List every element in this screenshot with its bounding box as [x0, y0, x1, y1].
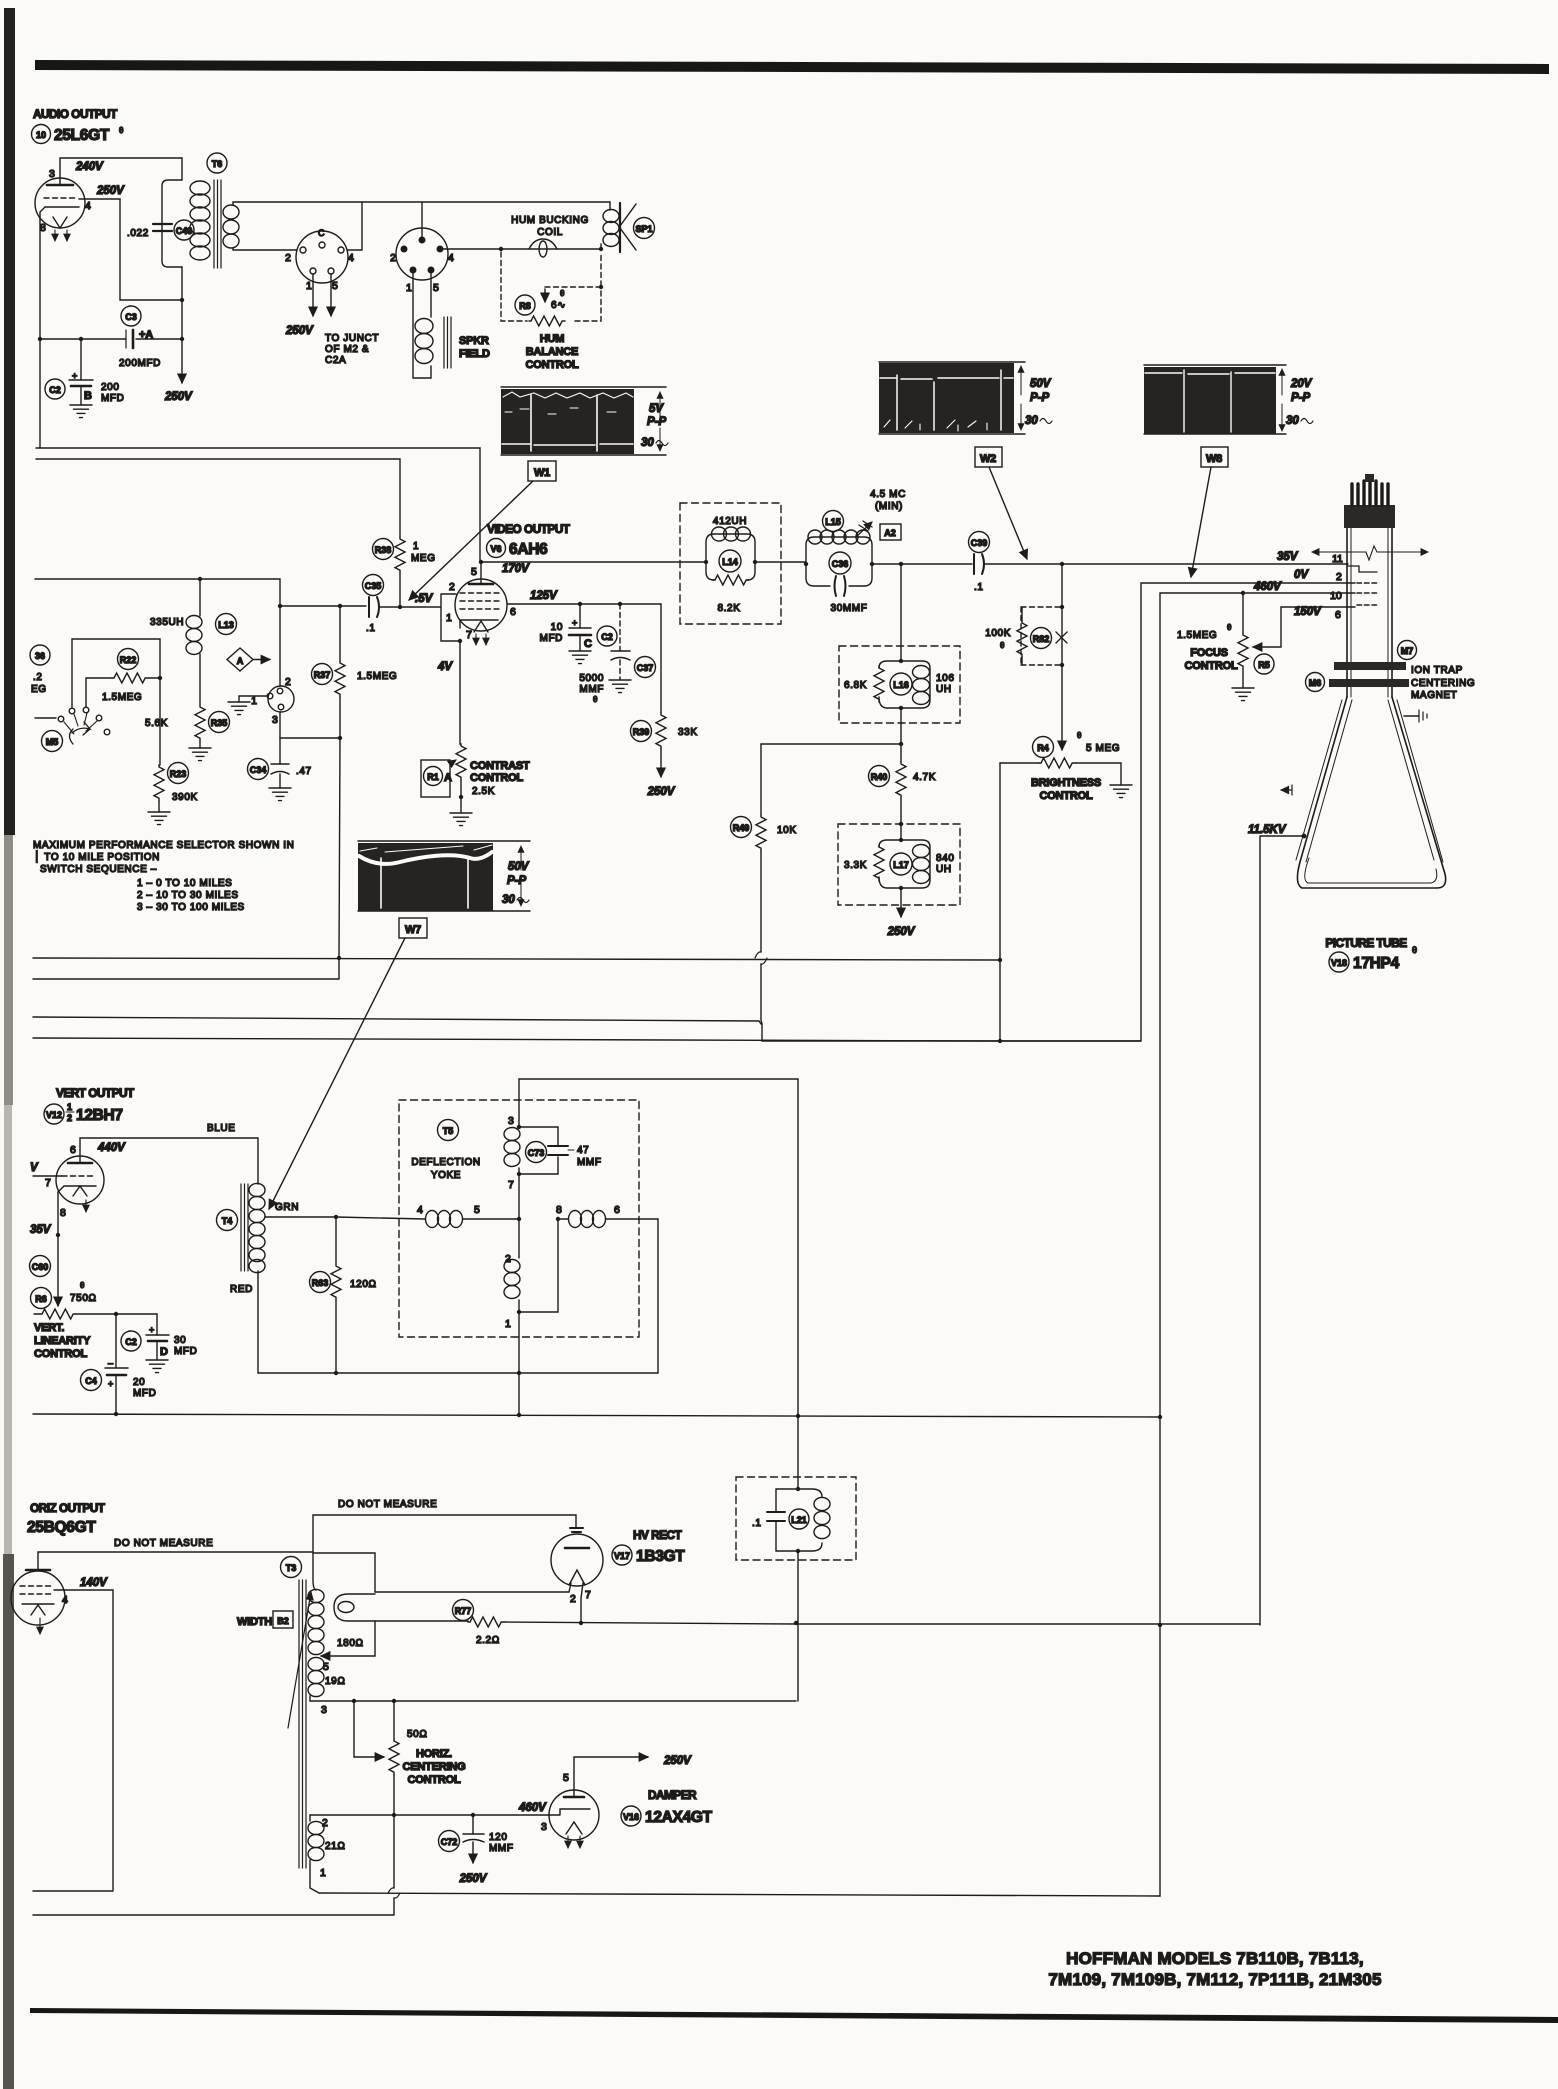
wire plate riser to HV top line — [313, 1515, 576, 1552]
svg-text:B2: B2 — [277, 1616, 289, 1626]
wire bus y1038 0V return — [33, 1038, 1141, 1041]
svg-text:C: C — [584, 638, 592, 650]
svg-text:30: 30 — [1286, 415, 1299, 427]
callout W7 — [269, 918, 427, 1209]
svg-text:+: + — [149, 1325, 154, 1335]
resistor R77 — [375, 1600, 1260, 1647]
electrode pin6 dashes — [1357, 604, 1378, 606]
svg-text:7: 7 — [585, 1589, 591, 1601]
capacitor C37 — [579, 602, 655, 704]
svg-text:C2: C2 — [125, 1337, 137, 1347]
svg-text:35V: 35V — [1277, 551, 1299, 563]
T3 winding tap wire to HV racetrack — [321, 1621, 375, 1656]
svg-text:2: 2 — [285, 252, 291, 264]
svg-text:MMF: MMF — [489, 1843, 514, 1854]
svg-text:4: 4 — [62, 1594, 68, 1606]
svg-text:CENTERING: CENTERING — [1411, 678, 1475, 689]
capacitor C35 — [363, 575, 384, 635]
resistor R40 — [869, 762, 936, 840]
svg-text:7M109, 7M109B, 7M112, 7P111: 7M109, 7M109B, 7M112, 7P111B, 21M305 — [1048, 1970, 1381, 1989]
svg-text:180Ω: 180Ω — [337, 1638, 364, 1649]
svg-text:θ: θ — [80, 1281, 85, 1290]
wire T3 pin3 line — [310, 1696, 796, 1716]
svg-text:3: 3 — [272, 714, 278, 726]
tube 25BQ6GT envelope — [11, 1570, 68, 1634]
svg-text:10: 10 — [36, 130, 46, 140]
spkr field coil — [415, 319, 433, 364]
label AUDIO OUTPUT — [33, 107, 118, 121]
wire R39 to 250V — [647, 749, 676, 798]
svg-text:5V: 5V — [649, 403, 664, 415]
svg-text:150V: 150V — [1294, 606, 1322, 618]
label SPKR FIELD — [459, 335, 490, 360]
svg-text:TO JUNCT: TO JUNCT — [325, 333, 379, 344]
svg-text:12BH7: 12BH7 — [76, 1107, 123, 1124]
label 35V pin 11 — [1277, 551, 1343, 565]
svg-text:C34: C34 — [250, 765, 267, 775]
wire L17 to 250V — [887, 888, 916, 938]
svg-text:200: 200 — [101, 382, 120, 393]
tube V10 envelope — [35, 168, 91, 241]
svg-text:460V: 460V — [1253, 581, 1282, 593]
svg-text:θ: θ — [593, 695, 598, 704]
svg-text:250V: 250V — [647, 786, 676, 798]
svg-text:6∿: 6∿ — [551, 300, 566, 311]
capacitor C4 vert 20MFD — [81, 1314, 157, 1416]
label BLUE — [207, 1123, 236, 1134]
transformer T3 core — [299, 1580, 306, 1868]
svg-text:V16: V16 — [623, 1812, 639, 1822]
svg-text:8: 8 — [40, 222, 46, 234]
svg-text:HOFFMAN MODELS 7B110B, 7B11: HOFFMAN MODELS 7B110B, 7B113, — [1066, 1949, 1364, 1968]
svg-text:L13: L13 — [218, 620, 234, 630]
wire yoke coupling loop — [519, 1219, 558, 1312]
svg-text:C2A: C2A — [325, 355, 346, 366]
svg-text:3 – 30 TO 100 MILES: 3 – 30 TO 100 MILES — [137, 902, 245, 913]
wire secondary bottom to plug pin2 — [233, 248, 297, 250]
transformer T3 mid winding 19 ohm — [308, 1657, 345, 1696]
svg-text:+: + — [72, 371, 77, 381]
svg-text:47: 47 — [577, 1145, 589, 1156]
svg-text:1.5MEG: 1.5MEG — [1177, 630, 1217, 641]
svg-text:V: V — [30, 1162, 39, 1174]
wire R49 top — [761, 743, 901, 745]
transformer T6 secondary — [223, 205, 239, 248]
wire top bus to SP1 — [362, 201, 610, 203]
svg-text:250V: 250V — [459, 1873, 488, 1885]
wire L21 bottom to T3 pin3 line — [797, 1551, 799, 1701]
svg-text:3: 3 — [541, 1821, 547, 1833]
label HUM BUCKING COIL — [511, 215, 589, 238]
svg-text:2: 2 — [505, 1253, 511, 1265]
svg-text:.1: .1 — [366, 623, 376, 634]
label HORIZ OUTPUT — [30, 1501, 106, 1515]
wire V10 cathode down left rail — [40, 207, 45, 448]
svg-text:CENTERING: CENTERING — [403, 1761, 466, 1773]
label DO NOT MEASURE upper — [338, 1499, 437, 1510]
wire socket to R37 bottom — [280, 736, 342, 740]
picture tube base pins — [1344, 474, 1395, 528]
svg-text:C3: C3 — [125, 312, 137, 322]
svg-text:D: D — [160, 1346, 168, 1358]
wire bus y979 — [33, 978, 339, 980]
svg-text:FOCUS: FOCUS — [1190, 647, 1228, 659]
svg-text:2: 2 — [449, 581, 455, 593]
svg-text:V6: V6 — [490, 544, 501, 554]
deflection yoke dashed box T5 — [399, 1100, 639, 1337]
ground below focus — [1232, 688, 1254, 701]
svg-text:R49: R49 — [733, 823, 750, 833]
svg-text:L21: L21 — [791, 1515, 807, 1525]
callout W8 — [1191, 447, 1228, 577]
svg-text:3: 3 — [508, 1115, 514, 1127]
svg-text:250V: 250V — [285, 325, 314, 337]
tube V12 envelope — [45, 1144, 104, 1219]
second anode 11.5KV — [1248, 824, 1306, 1625]
svg-text:10: 10 — [551, 622, 563, 633]
svg-text:A: A — [237, 656, 244, 666]
wire yoke right return — [657, 1219, 659, 1373]
capacitor C73 — [519, 1127, 602, 1174]
capacitor C39 — [969, 532, 990, 594]
svg-text:OF M2 &: OF M2 & — [325, 344, 369, 355]
wire pin4 250V line — [79, 199, 182, 300]
svg-text:6: 6 — [510, 606, 516, 618]
resistor R38 — [373, 537, 436, 607]
svg-text:R38: R38 — [375, 545, 392, 555]
svg-text:–: – — [108, 1358, 113, 1368]
label HOFFMAN MODELS — [1048, 1949, 1381, 1989]
svg-text:GRN: GRN — [275, 1202, 299, 1213]
tube V6 envelope — [455, 579, 507, 645]
yoke horizontal coil 8-6 — [556, 1204, 658, 1228]
label VIDEO OUTPUT — [487, 522, 571, 536]
svg-text:+: + — [572, 618, 577, 628]
svg-text:MAXIMUM PERFORMANCE SELECTOR: MAXIMUM PERFORMANCE SELECTOR SHOWN IN — [33, 840, 294, 851]
svg-text:C37: C37 — [637, 663, 654, 673]
svg-text:1: 1 — [413, 541, 419, 552]
svg-text:10K: 10K — [777, 825, 797, 836]
svg-text:L16: L16 — [893, 680, 909, 690]
transformer T6 core — [214, 180, 221, 268]
svg-text:30: 30 — [502, 894, 515, 906]
wire brightness left to 0V bus — [998, 763, 1002, 1043]
wire plate to T3 HV winding — [313, 1553, 375, 1592]
svg-text:DAMPER: DAMPER — [648, 1788, 697, 1802]
svg-text:MFD: MFD — [101, 393, 124, 404]
page margin bar left — [3, 8, 15, 2089]
svg-text:CONTRAST: CONTRAST — [470, 760, 530, 772]
ground below C2 video — [569, 651, 591, 664]
ground below C37 — [609, 680, 631, 693]
svg-text:R35: R35 — [211, 718, 228, 728]
svg-text:11: 11 — [1332, 553, 1343, 565]
wire main vert return bus — [33, 1413, 1160, 1417]
wire R37 bottom riser to sync bus — [337, 738, 341, 979]
coil L17 dashed box — [838, 824, 960, 905]
svg-text:C: C — [318, 228, 325, 238]
svg-text:HUM BUCKING: HUM BUCKING — [511, 215, 589, 226]
svg-text:2 – 10 TO 30 MILES: 2 – 10 TO 30 MILES — [137, 890, 239, 901]
svg-text:5: 5 — [332, 280, 338, 292]
svg-text:+A: +A — [139, 329, 153, 341]
svg-text:.022: .022 — [127, 228, 149, 239]
wire yoke top bus to L21 drop — [519, 1079, 800, 1489]
label 170V — [502, 563, 530, 575]
selector switch M5 — [35, 707, 110, 751]
wire T3 pin1 bottom line — [319, 1893, 1160, 1896]
transformer T3 upper winding — [308, 1553, 364, 1655]
capacitor C49 — [127, 180, 194, 267]
svg-text:C4: C4 — [85, 1376, 97, 1386]
label ION TRAP CENTERING MAGNET — [1411, 665, 1475, 701]
wire C36 to C39 — [872, 562, 972, 566]
tube V12 12BH7 label — [44, 1102, 123, 1124]
svg-text:CONTROL: CONTROL — [526, 359, 579, 371]
T3 HV winding racetrack — [334, 1592, 569, 1621]
svg-text:R1: R1 — [427, 772, 439, 782]
resistor R63 — [310, 1215, 377, 1373]
svg-text:2: 2 — [1336, 571, 1342, 583]
wire L16 branch down — [900, 564, 902, 661]
label MAXIMUM PERFORMANCE SELECTOR — [33, 840, 294, 913]
svg-text:R23: R23 — [170, 769, 187, 779]
svg-text:840: 840 — [936, 853, 955, 864]
svg-text:MMF: MMF — [579, 684, 604, 695]
wire plate pin6 BLUE to T4 — [80, 1138, 258, 1184]
svg-text:5000: 5000 — [579, 673, 604, 684]
svg-text:θ: θ — [1077, 731, 1082, 740]
svg-text:ION TRAP: ION TRAP — [1411, 665, 1463, 676]
wire L16 to R40 — [899, 708, 903, 762]
svg-text:4.7K: 4.7K — [913, 772, 936, 783]
svg-text:T3: T3 — [286, 1563, 297, 1573]
svg-text:M5: M5 — [46, 737, 59, 747]
svg-text:MFD: MFD — [540, 633, 563, 644]
yoke vertical coil 3-7 — [504, 1128, 521, 1192]
svg-text:W7: W7 — [405, 924, 421, 936]
electrode pin10 dashes — [1357, 592, 1378, 594]
svg-text:6: 6 — [614, 1204, 620, 1216]
svg-text:.5V: .5V — [415, 593, 434, 605]
svg-text:5: 5 — [563, 1772, 569, 1784]
svg-text:MFD: MFD — [174, 1346, 197, 1357]
wire 150V line — [1281, 606, 1355, 621]
svg-text:C49: C49 — [176, 226, 193, 236]
svg-text:200MFD: 200MFD — [119, 358, 161, 369]
coil L14 with 8.2K — [704, 516, 757, 614]
wire plug P2 pin4 to SP1 — [443, 247, 603, 251]
svg-text:30: 30 — [1025, 415, 1038, 427]
svg-text:7: 7 — [508, 1179, 514, 1191]
wire C35 node line — [280, 604, 441, 609]
svg-text:P-P: P-P — [1030, 392, 1050, 404]
svg-text:A2: A2 — [884, 528, 896, 538]
yoke horizontal coil 4-5 — [336, 1204, 519, 1228]
svg-text:L17: L17 — [893, 860, 909, 870]
yoke vertical coil 2-1 — [504, 1219, 521, 1330]
tube V6 6AH6 label — [487, 539, 549, 559]
horiz centering control — [354, 1701, 465, 1815]
svg-text:LINEARITY: LINEARITY — [34, 1335, 91, 1347]
svg-text:θ: θ — [1412, 945, 1417, 955]
damper tube V16 envelope — [541, 1772, 599, 1848]
svg-text:CONTROL: CONTROL — [470, 772, 523, 784]
svg-text:C60: C60 — [32, 1262, 49, 1272]
electrode pin11 step — [1348, 566, 1377, 572]
wire cathode pin8 down — [56, 1192, 60, 1306]
node C35 tap — [278, 604, 282, 608]
svg-text:106: 106 — [936, 673, 955, 684]
svg-text:SWITCH SEQUENCE –: SWITCH SEQUENCE – — [40, 864, 157, 875]
svg-text:T4: T4 — [222, 1216, 233, 1226]
contrast control R1A — [421, 744, 530, 799]
svg-text:UH: UH — [936, 864, 952, 875]
svg-text:COIL: COIL — [537, 227, 563, 238]
svg-text:5: 5 — [474, 1204, 480, 1216]
wire socket pin1 to ground — [228, 696, 267, 715]
callout W1 — [409, 461, 556, 600]
waveform W2 scope photo — [879, 362, 1052, 434]
svg-text:PICTURE TUBE: PICTURE TUBE — [1325, 936, 1407, 950]
wire bus y579 to socket — [35, 579, 280, 606]
svg-text:AUDIO OUTPUT: AUDIO OUTPUT — [33, 107, 118, 121]
label 240V — [75, 161, 104, 173]
svg-text:50Ω: 50Ω — [407, 1729, 427, 1740]
svg-text:5: 5 — [323, 1661, 329, 1673]
svg-text:8.2K: 8.2K — [718, 603, 741, 614]
wire bus y1017 — [33, 1017, 761, 1024]
wire 460V damper line — [310, 1802, 548, 1817]
svg-text:2: 2 — [570, 1593, 576, 1605]
svg-text:RED: RED — [230, 1284, 253, 1295]
wire 25BQ6GT plate line — [38, 1552, 313, 1570]
svg-text:R40: R40 — [871, 772, 888, 782]
coil L17 with 3.3K — [844, 838, 954, 890]
transformer T6 label — [207, 153, 227, 173]
wire C39 to 35V node — [984, 562, 1348, 566]
ground brightness — [1110, 785, 1132, 798]
electrode pin2 dashes — [1357, 582, 1378, 584]
wire bus y958 — [33, 958, 1000, 960]
svg-text:120Ω: 120Ω — [350, 1279, 377, 1290]
svg-text:V18: V18 — [1331, 958, 1347, 968]
svg-text:(MIN): (MIN) — [875, 501, 903, 512]
wire plate pin3 to T6 top — [60, 158, 182, 185]
svg-text:19Ω: 19Ω — [325, 1676, 345, 1687]
svg-text:MEG: MEG — [411, 553, 436, 564]
svg-text:4: 4 — [85, 200, 91, 212]
svg-text:1: 1 — [67, 1102, 72, 1112]
svg-text:DO NOT MEASURE: DO NOT MEASURE — [114, 1538, 213, 1549]
svg-text:W8: W8 — [1206, 453, 1222, 465]
svg-text:⎪ TO 10 MILE POSITION: ⎪ TO 10 MILE POSITION — [33, 850, 160, 863]
svg-text:MMF: MMF — [577, 1157, 602, 1168]
svg-text:VIDEO OUTPUT: VIDEO OUTPUT — [487, 522, 571, 536]
svg-text:250V: 250V — [663, 1755, 692, 1767]
hum bucking coil in wire — [529, 239, 557, 257]
ion trap magnet M7 — [1334, 641, 1417, 671]
wire V6 cathode to contrast — [437, 641, 461, 744]
wire V6 plate to 170V node — [471, 560, 483, 584]
svg-text:C35: C35 — [365, 581, 382, 591]
svg-text:120: 120 — [489, 1832, 508, 1843]
trimmer arrow A2 — [857, 489, 906, 540]
capacitor C3 — [38, 306, 182, 369]
wire plug P1 pin1 250V arrow — [285, 274, 314, 337]
svg-text:2.5K: 2.5K — [472, 786, 495, 797]
svg-text:4: 4 — [448, 252, 454, 264]
svg-text:VERT OUTPUT: VERT OUTPUT — [56, 1086, 135, 1100]
svg-text:140V: 140V — [80, 1577, 108, 1589]
coil L16 dashed box — [839, 646, 960, 723]
svg-text:1 – 0 TO 10 MILES: 1 – 0 TO 10 MILES — [137, 878, 232, 889]
width adjust arrow B2 — [237, 1592, 311, 1728]
svg-text:SPKR: SPKR — [459, 335, 489, 347]
svg-text:C73: C73 — [528, 1148, 545, 1158]
picture tube funnel — [1296, 697, 1446, 888]
svg-text:DO NOT MEASURE: DO NOT MEASURE — [338, 1499, 437, 1510]
resistor R8 — [515, 289, 566, 326]
spkr field core — [444, 317, 451, 368]
waveform W8 scope photo — [1144, 365, 1313, 434]
svg-text:.1: .1 — [974, 582, 984, 593]
focus control R5 — [1177, 591, 1281, 688]
label DO NOT MEASURE lower — [114, 1538, 213, 1549]
svg-text:1: 1 — [251, 695, 257, 707]
wire 170V video line — [481, 561, 806, 563]
deflection span arrow — [1312, 546, 1428, 560]
potentiometer R8 hum balance network (dashed) — [501, 252, 601, 321]
transformer T4 winding — [217, 1183, 266, 1272]
svg-text:100K: 100K — [985, 628, 1011, 639]
wire horiz centering bottom to lower bus — [33, 1813, 400, 1915]
svg-text:1: 1 — [320, 1867, 326, 1879]
svg-text:BALANCE: BALANCE — [526, 346, 578, 358]
speaker plug P1 — [285, 228, 354, 292]
svg-text:1: 1 — [505, 1318, 511, 1330]
svg-text:2: 2 — [322, 1817, 328, 1829]
capacitor C2 vert 30MFD — [121, 1314, 197, 1360]
label VERT OUTPUT — [56, 1086, 135, 1100]
svg-text:20: 20 — [133, 1377, 145, 1388]
wire brightness feed — [1061, 564, 1063, 750]
page rule top — [35, 60, 1549, 74]
label HV RECT V17 1B3GT — [612, 1528, 685, 1565]
svg-text:HORIZ.: HORIZ. — [416, 1748, 452, 1760]
transformer T3 label — [281, 1557, 302, 1578]
svg-text:8: 8 — [556, 1204, 562, 1216]
svg-text:250V: 250V — [96, 185, 125, 197]
ground below contrast — [450, 797, 472, 826]
node junction T6 bottom — [180, 298, 184, 302]
svg-text:6.8K: 6.8K — [844, 680, 867, 691]
svg-text:R37: R37 — [314, 670, 331, 680]
svg-text:170V: 170V — [502, 563, 530, 575]
svg-text:R5: R5 — [1258, 660, 1270, 670]
svg-text:M7: M7 — [1401, 646, 1414, 656]
svg-text:7: 7 — [45, 1177, 51, 1189]
wire B+ bus y448 — [36, 448, 480, 562]
svg-text:MAGNET: MAGNET — [1411, 690, 1457, 701]
label 440V — [97, 1142, 126, 1154]
capacitor C2 audio — [45, 339, 124, 405]
wire yoke pin1 down to bus — [518, 1312, 520, 1415]
wire left stub y1917 hop — [59, 1916, 394, 1918]
wire M5 contacts up to R22/R23 — [72, 639, 160, 708]
svg-text:20V: 20V — [1290, 378, 1313, 390]
wire plug P1 pin5 arrow — [330, 274, 332, 316]
